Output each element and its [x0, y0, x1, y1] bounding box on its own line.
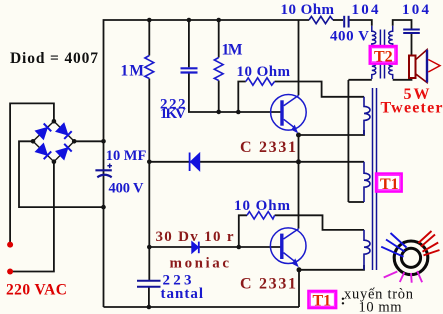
- diode D3 base Q2: [192, 242, 199, 254]
- resistor R2 1M: [214, 58, 223, 81]
- wire C2 bottom to base line: [189, 74, 281, 113]
- capacitor C2 222 1KV: [181, 68, 198, 72]
- svg-text:Diod = 4007: Diod = 4007: [10, 50, 98, 67]
- svg-text:400 V: 400 V: [109, 181, 145, 197]
- svg-text:1M: 1M: [222, 42, 243, 59]
- diode D-BR: [56, 144, 72, 160]
- toroid red leads: [418, 231, 439, 255]
- diode D-TL: [35, 123, 51, 139]
- capacitor 104 speaker: [403, 30, 420, 34]
- wire winding B bottom stub: [348, 201, 364, 203]
- resistor 10 Ohm rail: [309, 16, 333, 23]
- wire base line Q2: [149, 246, 281, 248]
- diode D2 midline: [190, 153, 200, 172]
- svg-text:10 Ohm: 10 Ohm: [234, 198, 291, 214]
- speaker: [409, 50, 440, 83]
- wire T2 left bottom: [348, 79, 371, 81]
- wire rail T2 entry: [349, 20, 372, 26]
- wire 223 cap to bottom rail: [148, 288, 150, 308]
- wire midline: [149, 161, 364, 163]
- transformer T1 core: [373, 88, 377, 270]
- node left: [31, 139, 36, 144]
- resistor 10 Ohm base Q1: [246, 78, 275, 85]
- svg-text:T1: T1: [380, 176, 399, 193]
- svg-text:T2: T2: [374, 49, 393, 66]
- transistor Q1 C2331: [271, 95, 307, 134]
- wire left rail lower: [103, 141, 105, 307]
- wire T2 right bottom to speaker: [393, 78, 412, 80]
- svg-text:10 mm: 10 mm: [359, 300, 403, 314]
- wire 104b to speaker: [411, 34, 413, 56]
- wire emitter Q2 node: [299, 265, 364, 270]
- svg-text:104: 104: [402, 2, 430, 18]
- wire rail to R1: [148, 20, 150, 56]
- transformer T2: [372, 26, 393, 79]
- wire top rail: [104, 20, 310, 141]
- svg-text:104: 104: [352, 2, 380, 18]
- svg-text:10 MF: 10 MF: [106, 148, 147, 164]
- wire emitter Q2 down: [298, 270, 300, 307]
- label box T2: [370, 46, 397, 65]
- wire 10ohm branch Q1: [238, 82, 246, 113]
- wire T2 right top: [393, 20, 412, 29]
- capacitor C1 10MF 400V: [95, 164, 112, 178]
- svg-text:T1: T1: [313, 293, 332, 310]
- transistor Q2 C2331: [270, 228, 306, 267]
- resistor 10 Ohm base Q2: [247, 212, 275, 219]
- diode D-BL: [35, 143, 51, 159]
- wire rail to C2: [188, 20, 190, 67]
- node top: [52, 119, 57, 124]
- svg-text:220 VAC: 220 VAC: [6, 282, 67, 299]
- T1 winding C: [364, 230, 370, 270]
- svg-text:C 2331: C 2331: [240, 139, 296, 156]
- svg-text:tantal: tantal: [161, 286, 204, 302]
- bridge rectifier: [31, 119, 77, 164]
- label box T1 legend: [309, 291, 337, 310]
- wire R2 bottom: [218, 81, 220, 113]
- label box T1: [376, 174, 402, 193]
- wire bridge bottom to lower terminal: [10, 162, 54, 272]
- toroid T1 picture: [381, 231, 439, 283]
- svg-text:C 2331: C 2331: [240, 276, 296, 293]
- T1 winding B: [364, 162, 370, 202]
- wire rail to R2: [218, 20, 220, 58]
- T2 core: [379, 30, 381, 79]
- wire emitter Q1 node: [299, 130, 365, 135]
- svg-text:1M: 1M: [121, 63, 145, 80]
- svg-text:400 V: 400 V: [330, 28, 369, 44]
- wire collector Q1: [298, 20, 300, 95]
- wire bridge right node to rail: [74, 140, 103, 142]
- resistor R1 1M: [145, 56, 154, 79]
- wire emitter Q1 down: [298, 135, 300, 229]
- wire 149 vertical to 223 cap: [148, 162, 150, 280]
- terminal 220VAC top: [7, 242, 13, 248]
- svg-text:1KV: 1KV: [160, 106, 186, 122]
- T1 winding A: [364, 97, 370, 135]
- diode D-TR: [56, 123, 72, 139]
- T2 primary winding: [372, 26, 376, 79]
- node bottom: [52, 159, 57, 164]
- wire bridge edges: [33, 121, 74, 162]
- svg-text:10 Ohm: 10 Ohm: [237, 64, 291, 80]
- svg-text:10 Ohm: 10 Ohm: [281, 2, 335, 18]
- svg-text:30 Dv 10 r: 30 Dv 10 r: [156, 229, 234, 245]
- wire 10ohm branch Q2: [239, 215, 247, 247]
- wire T2 ground drop: [347, 80, 349, 202]
- capacitor C4 223 tantal: [137, 281, 161, 287]
- terminal 220VAC bottom: [7, 269, 13, 275]
- wire 10ohm Q2 to feedback: [275, 215, 364, 230]
- toroid blue leads: [381, 233, 406, 257]
- T2 secondary winding: [389, 26, 393, 79]
- wire bridge top to left terminal: [10, 103, 54, 244]
- capacitor 104 rail: [333, 16, 349, 28]
- wire R1 bottom to midline: [148, 79, 150, 162]
- wire bridge left node loop: [19, 141, 104, 207]
- wire 10ohm Q1 to feedback: [275, 82, 364, 97]
- node right: [72, 139, 77, 144]
- wire bottom rail: [104, 306, 300, 308]
- svg-text:Tweeter: Tweeter: [381, 99, 443, 116]
- toroid magenta leads: [384, 271, 422, 283]
